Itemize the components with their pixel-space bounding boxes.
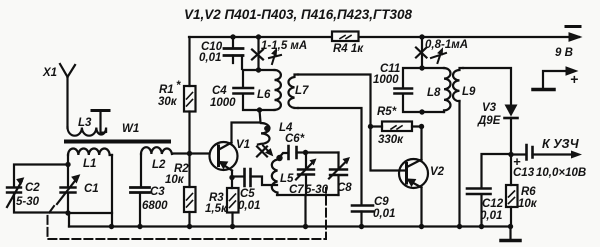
- capacitor C11 and tank4: [403, 68, 444, 112]
- svg-text:W1: W1: [122, 123, 139, 135]
- inductor L3: [68, 112, 107, 136]
- svg-text:С5: С5: [240, 188, 255, 200]
- node plus supply terminal: [543, 71, 570, 88]
- inductor L7: [288, 75, 298, 109]
- svg-text:1000: 1000: [210, 97, 236, 109]
- resistor R5: [368, 124, 373, 129]
- capacitor C9: [352, 206, 373, 212]
- svg-text:10к: 10к: [518, 198, 538, 210]
- wire top supply rail: [189, 36, 579, 38]
- inductor L6: [275, 70, 281, 110]
- capacitor C1 variable: [67, 155, 69, 213]
- svg-text:1000: 1000: [373, 74, 399, 86]
- svg-text:L3: L3: [78, 117, 92, 129]
- svg-text:V2: V2: [430, 166, 445, 178]
- node junction dots on rail: [109, 224, 114, 229]
- antenna X1: [60, 64, 75, 128]
- svg-text:R6: R6: [521, 186, 536, 198]
- capacitor C2 trimmer: [14, 165, 68, 213]
- node break X mark 1: [252, 50, 263, 60]
- svg-text:6800: 6800: [142, 200, 168, 212]
- node junction L5 top: [276, 155, 282, 161]
- svg-text:L7: L7: [295, 85, 309, 97]
- wire tank1 bottom to rail: [68, 213, 112, 227]
- svg-text:V3: V3: [482, 102, 497, 114]
- svg-text:R1: R1: [159, 84, 174, 96]
- node break X mark L4: [257, 147, 267, 157]
- diode V3: [505, 105, 518, 117]
- wire feed with break to tank L8: [421, 37, 423, 68]
- svg-text:С3: С3: [150, 186, 165, 198]
- svg-text:5-30: 5-30: [16, 196, 40, 208]
- svg-text:V1,V2 П401-П403, П416,П423,ГТ3: V1,V2 П401-П403, П416,П423,ГТ308: [184, 7, 413, 22]
- svg-text:С4: С4: [212, 85, 227, 97]
- svg-text:Д9Е: Д9Е: [477, 115, 501, 127]
- svg-text:0,01: 0,01: [199, 52, 221, 64]
- resistor R1: [188, 37, 190, 86]
- svg-text:0,8-1мА: 0,8-1мА: [425, 39, 468, 51]
- node junction C7 top: [303, 150, 308, 155]
- transistor V1: [210, 142, 238, 170]
- wire tank1 right side: [111, 155, 113, 227]
- node junction tank2 bottom: [257, 107, 262, 112]
- inductor L9: [453, 68, 463, 101]
- node probe arrow L4: [263, 146, 271, 154]
- svg-text:10,0×10В: 10,0×10В: [536, 167, 586, 179]
- svg-text:*: *: [176, 80, 181, 92]
- capacitor C4 and tank top: [243, 70, 275, 110]
- capacitor C13 electrolytic: [511, 153, 526, 155]
- svg-text:330к: 330к: [378, 134, 404, 146]
- wire dashed mechanical gang link C1-C8: [48, 188, 327, 239]
- svg-text:L2: L2: [152, 159, 166, 171]
- inductor L4: [258, 110, 270, 145]
- node junction tank2 top: [256, 67, 261, 72]
- svg-text:+: +: [570, 71, 578, 87]
- svg-text:С2: С2: [25, 182, 40, 194]
- svg-text:Х1: Х1: [42, 67, 57, 79]
- svg-text:R5*: R5*: [377, 106, 397, 118]
- svg-text:С1: С1: [84, 183, 99, 195]
- capacitor C12: [482, 154, 512, 187]
- capacitor C5: [232, 175, 244, 177]
- capacitor C8 variable: [337, 153, 339, 169]
- capacitor C10: [232, 37, 234, 47]
- svg-text:L1: L1: [83, 158, 96, 170]
- node junction tank1 bottom: [65, 210, 70, 215]
- resistor R4: [332, 32, 359, 42]
- svg-text:L6: L6: [257, 89, 271, 101]
- svg-text:L9: L9: [462, 86, 476, 98]
- svg-text:С8: С8: [337, 182, 352, 194]
- node junction base: [187, 151, 192, 156]
- svg-text:С12: С12: [482, 198, 504, 210]
- svg-text:1,5к: 1,5к: [205, 203, 228, 215]
- capacitor C6: [281, 153, 289, 156]
- inductor L5: [272, 158, 280, 195]
- wire L9 left side down to rail: [458, 101, 460, 227]
- svg-text:9 В: 9 В: [555, 47, 573, 59]
- wire feed with break to tank L6: [257, 37, 259, 70]
- svg-text:1-1,5 мА: 1-1,5 мА: [261, 40, 307, 52]
- wire bottom common rail: [69, 225, 511, 227]
- node junction C10 rail: [230, 34, 235, 39]
- node break X mark 2: [416, 48, 427, 58]
- wire L2 left down: [140, 154, 142, 187]
- wire tank3 bottom: [277, 195, 339, 227]
- node junction C2 top: [65, 162, 70, 167]
- svg-text:10к: 10к: [165, 174, 185, 186]
- ferrite rod W1: [66, 140, 169, 144]
- svg-text:0,01: 0,01: [480, 210, 502, 222]
- node probe arrow 1: [269, 51, 281, 64]
- ground: [509, 227, 511, 241]
- resistor R6: [510, 155, 512, 186]
- svg-text:С6*: С6*: [285, 133, 305, 145]
- svg-text:L8: L8: [427, 87, 441, 99]
- svg-text:30к: 30к: [158, 96, 178, 108]
- svg-text:С13: С13: [513, 167, 535, 179]
- capacitor C7 trimmer: [305, 153, 307, 169]
- node junction detector out: [508, 152, 513, 157]
- svg-text:R4 1к: R4 1к: [333, 43, 364, 55]
- svg-text:С9: С9: [374, 196, 389, 208]
- inductor L8: [444, 68, 451, 112]
- capacitor C3: [131, 188, 150, 193]
- wire L9 top to diode: [463, 68, 511, 104]
- resistor R2: [188, 154, 190, 188]
- resistor R3: [231, 178, 233, 189]
- node junction emitter: [229, 175, 234, 180]
- svg-text:0,01: 0,01: [373, 208, 395, 220]
- transistor V2: [371, 127, 407, 171]
- svg-text:0,01: 0,01: [238, 200, 260, 212]
- inductor L1: [68, 148, 112, 155]
- inductor L2: [141, 147, 172, 154]
- wire L2 to V1 base: [172, 152, 210, 154]
- wire L7 bottom to C9: [298, 108, 362, 204]
- wire L7 top to R5 junction: [298, 75, 371, 127]
- node probe arrow 2: [431, 51, 446, 63]
- svg-text:К УЗЧ: К УЗЧ: [542, 137, 580, 151]
- svg-text:V1: V1: [236, 139, 250, 151]
- node arrow 9V minus terminal: [569, 33, 581, 41]
